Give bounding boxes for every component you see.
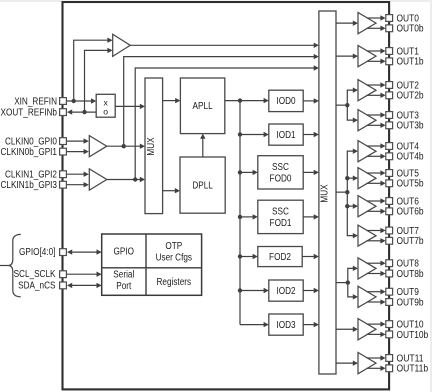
wire bus to SSC FOD1 [240, 216, 254, 218]
wire XO output to input MUX [115, 105, 141, 107]
pin OUT7 [386, 227, 393, 234]
wire OUT10 complement output [367, 333, 381, 335]
wire OUT1 true output [367, 50, 381, 52]
wire output MUX to OUT11 buffer [336, 362, 354, 364]
pin OUT2 [386, 82, 393, 89]
mux output MUX [319, 11, 336, 374]
svg-text:IOD2: IOD2 [276, 286, 295, 297]
wire CLKIN1_GPI2 to buffer [67, 173, 85, 175]
pin GPIO[4:0] [60, 249, 67, 256]
svg-text:SDA_nCS: SDA_nCS [18, 281, 56, 292]
svg-text:SCL_SCLK: SCL_SCLK [14, 269, 56, 280]
wire output MUX to OUT0 buffer [336, 22, 354, 24]
pin OUT6 [386, 198, 393, 205]
pin OUT9 [386, 288, 393, 295]
buffer OUT3 [358, 110, 376, 131]
wire bus to SSC FOD0 [240, 171, 254, 173]
svg-text:XIN_REFIN: XIN_REFIN [14, 96, 57, 107]
chip outer boundary box [63, 2, 390, 389]
wire OUT6 complement output [367, 210, 381, 212]
divider IOD3 [269, 314, 303, 335]
wire GPIO bidirectional [71, 251, 98, 253]
node XOUT junction [82, 110, 86, 114]
svg-text:CLKIN0_GPI0: CLKIN0_GPI0 [5, 137, 57, 148]
node APLL output bus tap [238, 98, 242, 102]
pin OUT8 [386, 260, 393, 267]
buffer OUT9 [358, 286, 376, 307]
svg-text:o: o [103, 107, 108, 117]
divider SSC FOD1 [258, 200, 303, 233]
pll DPLL [180, 157, 225, 213]
svg-text:CLKIN0b_GPI1: CLKIN0b_GPI1 [1, 147, 58, 158]
svg-text:FOD1: FOD1 [270, 218, 292, 229]
node CLKIN0 branch [122, 144, 126, 148]
pin SCL_SCLK [60, 271, 67, 278]
svg-text:MUX: MUX [319, 184, 330, 202]
wire SDA_nCS bidirectional [71, 284, 98, 286]
pin OUT1 [386, 48, 393, 55]
wire OUT9 complement output [367, 301, 381, 303]
node OUT6 branch [345, 204, 349, 208]
pin OUT4 [386, 143, 393, 150]
pin OUT4b [386, 153, 393, 160]
divider FOD2 [258, 247, 302, 267]
wire bus to IOD2 [240, 290, 265, 292]
divider SSC FOD0 [258, 156, 303, 189]
wire input MUX to DPLL [163, 190, 176, 192]
buffer CLKIN1 [89, 169, 107, 190]
buffer OUT6 [358, 196, 376, 217]
wire bus to IOD3 [240, 324, 265, 326]
pin OUT11 [386, 355, 393, 362]
svg-text:Serial: Serial [113, 269, 134, 280]
svg-text:OUT8b: OUT8b [397, 269, 424, 280]
pin OUT10b [386, 331, 393, 338]
buffer OUT5 [358, 168, 376, 189]
wire OUT0 complement output [367, 27, 381, 29]
svg-text:IOD0: IOD0 [276, 96, 295, 107]
wire OUT8 complement output [367, 273, 381, 275]
buffer CLKIN0 [89, 136, 107, 157]
pin OUT7b [386, 237, 393, 244]
svg-text:SSC: SSC [272, 207, 289, 218]
wire CLKIN0b_GPI1 to buffer [67, 151, 85, 153]
block register table [102, 234, 202, 295]
crystal oscillator XO [96, 94, 115, 117]
svg-text:OUT3b: OUT3b [397, 121, 424, 132]
pin SDA_nCS [60, 282, 67, 289]
wire OUT3 complement output [367, 124, 381, 126]
wire CLKIN0 riser to output MUX [124, 57, 315, 147]
wire XOUT riser to REF buffer [85, 50, 109, 112]
wire IOD1 to output MUX [303, 134, 315, 136]
svg-text:APLL: APLL [193, 101, 213, 112]
pin CLKIN0_GPI0 [60, 138, 67, 145]
wire OUT3 true output [367, 114, 381, 116]
wire OUT2 true output [367, 84, 381, 86]
wire input MUX to APLL [163, 100, 177, 102]
svg-text:IOD1: IOD1 [276, 130, 295, 141]
pin CLKIN0b_GPI1 [60, 148, 67, 155]
wire IOD2 to output MUX [303, 290, 315, 292]
svg-text:OTP: OTP [165, 241, 182, 252]
pin OUT3 [386, 112, 393, 119]
pin OUT3b [386, 122, 393, 129]
pin XIN_REFIN [60, 98, 67, 105]
wire output MUX feed OUT4-OUT7 [336, 191, 347, 193]
gray table-border right edge [430, 0, 432, 392]
wire CLKIN0_GPI0 to buffer [67, 140, 85, 142]
pin CLKIN1_GPI2 [60, 171, 67, 178]
node CLKIN1 branch [133, 177, 137, 181]
pll APLL [180, 78, 224, 134]
wire OUT11 complement output [367, 367, 381, 369]
wire XO to XOUT_REFINb [71, 111, 97, 113]
wire output MUX feed OUT2-OUT3 [336, 104, 347, 106]
svg-text:DPLL: DPLL [192, 180, 213, 191]
pin OUT10 [386, 321, 393, 328]
svg-text:IOD3: IOD3 [276, 320, 295, 331]
wire SSC FOD0 to output MUX [303, 171, 315, 173]
pin OUT5b [386, 180, 393, 187]
svg-text:OUT0b: OUT0b [397, 24, 424, 35]
wire CLKIN1 buffer to input MUX [107, 179, 141, 181]
svg-text:CLKIN1b_GPI3: CLKIN1b_GPI3 [1, 180, 58, 191]
wire FOD2 to output MUX [302, 256, 315, 258]
pin OUT9b [386, 299, 393, 306]
node bus tap FOD2 [238, 254, 242, 258]
table divider vertical [145, 234, 147, 295]
buffer OUT8 [358, 258, 376, 279]
wire XIN_REFIN to XO [67, 100, 93, 102]
svg-text:XOUT_REFINb: XOUT_REFINb [1, 108, 58, 119]
svg-text:GPIO: GPIO [114, 246, 135, 257]
pin OUT2b [386, 92, 393, 99]
node bus tap SSC FOD1 [238, 215, 242, 219]
wire trunk OUT2-OUT3 [347, 90, 354, 120]
wire OUT9 true output [367, 291, 381, 293]
divider IOD1 [269, 124, 303, 145]
pin OUT11b [386, 365, 393, 372]
pin OUT8b [386, 270, 393, 277]
wire OUT4 complement output [367, 155, 381, 157]
node OUT8-OUT9 split [346, 280, 350, 284]
svg-text:OUT4b: OUT4b [397, 152, 424, 163]
wire bus to IOD1 [240, 134, 265, 136]
wire OUT8 true output [367, 262, 381, 264]
wire CLKIN0 buffer to input MUX [107, 145, 141, 147]
svg-text:OUT11b: OUT11b [397, 364, 429, 375]
buffer OUT1 [358, 46, 376, 67]
pin OUT5 [386, 170, 393, 177]
brace GPIO group [8, 234, 21, 296]
svg-text:OUT10b: OUT10b [397, 330, 429, 341]
wire trunk OUT8-OUT9 [348, 268, 354, 297]
svg-text:SSC: SSC [272, 162, 289, 173]
wire OUT2 complement output [367, 94, 381, 96]
svg-text:OUT5b: OUT5b [397, 179, 424, 190]
gray table-border band top-right [390, 0, 432, 2]
wire divider bus vertical [239, 101, 241, 325]
wire trunk OUT4-OUT7 [347, 151, 354, 236]
pin XOUT_REFINb [60, 109, 67, 116]
wire XIN riser to REF buffer [74, 40, 109, 101]
wire output MUX to OUT10 buffer [336, 328, 354, 330]
mux input MUX [145, 78, 163, 214]
wire OUT11 true output [367, 357, 381, 359]
wire REF buffer to output MUX [130, 44, 315, 46]
wire output MUX feed OUT8-OUT9 [336, 282, 348, 284]
wire DPLL to APLL [202, 138, 204, 157]
wire OUT5 true output [367, 172, 381, 174]
pin CLKIN1b_GPI3 [60, 181, 67, 188]
wire IOD0 to output MUX [303, 100, 315, 102]
wire OUT4 true output [367, 145, 381, 147]
svg-text:FOD0: FOD0 [270, 174, 292, 185]
wire SCL_SCLK to Serial Port [67, 273, 98, 275]
svg-text:Port: Port [116, 281, 131, 292]
svg-text:OUT9b: OUT9b [397, 297, 424, 308]
svg-text:OUT7b: OUT7b [397, 236, 424, 247]
buffer OUT7 [358, 225, 376, 246]
pin OUT0 [386, 15, 393, 22]
svg-text:GPIO[4:0]: GPIO[4:0] [19, 247, 56, 258]
svg-text:OUT2b: OUT2b [397, 91, 424, 102]
pin OUT6b [386, 208, 393, 215]
node XIN junction [72, 99, 76, 103]
wire APLL output to IOD0 [225, 100, 265, 102]
svg-text:FOD2: FOD2 [269, 252, 291, 263]
buffer OUT10 [358, 319, 376, 340]
node bus tap IOD1 [238, 132, 242, 136]
wire SSC FOD1 to output MUX [303, 216, 315, 218]
wire OUT6 true output [367, 200, 381, 202]
buffer REF [113, 34, 131, 56]
wire CLKIN1 riser to output MUX [135, 68, 315, 180]
wire CLKIN1b_GPI3 to buffer [67, 184, 85, 186]
node bus tap IOD2 [238, 288, 242, 292]
buffer OUT4 [358, 141, 376, 162]
wire OUT5 complement output [367, 182, 381, 184]
wire external to brace [0, 265, 8, 267]
svg-text:OUT6b: OUT6b [397, 207, 424, 218]
svg-text:MUX: MUX [146, 137, 157, 155]
wire bus to FOD2 [240, 256, 254, 258]
node OUT5 branch [345, 176, 349, 180]
buffer OUT2 [358, 80, 376, 101]
svg-text:CLKIN1_GPI2: CLKIN1_GPI2 [5, 170, 57, 181]
wire output MUX to OUT1 buffer [336, 55, 354, 57]
wire OUT7 true output [367, 230, 381, 232]
wire OUT1 complement output [367, 60, 381, 62]
wire OUT0 true output [367, 17, 381, 19]
buffer OUT11 [358, 353, 376, 374]
wire OUT10 true output [367, 323, 381, 325]
node bus tap SSC FOD0 [238, 170, 242, 174]
svg-text:OUT1b: OUT1b [397, 57, 424, 68]
pin OUT1b [386, 58, 393, 65]
pin OUT0b [386, 25, 393, 32]
node OUT4-OUT7 feed [345, 190, 349, 194]
divider IOD2 [269, 280, 303, 301]
divider IOD0 [269, 90, 303, 111]
node OUT2-OUT3 split [345, 103, 349, 107]
table divider horizontal [102, 267, 202, 269]
svg-text:User Cfgs: User Cfgs [156, 253, 192, 264]
buffer OUT0 [358, 13, 376, 34]
gray table-border band top-left [0, 0, 62, 2]
wire IOD3 to output MUX [303, 324, 315, 326]
wire OUT7 complement output [367, 240, 381, 242]
svg-text:Registers: Registers [157, 277, 192, 288]
